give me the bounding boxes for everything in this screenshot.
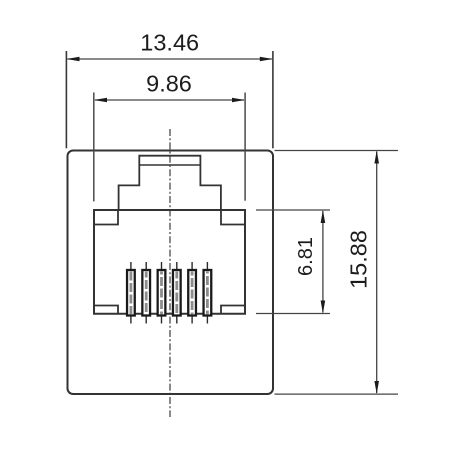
svg-text:9.86: 9.86 xyxy=(146,71,192,97)
svg-text:13.46: 13.46 xyxy=(140,30,199,56)
svg-text:15.88: 15.88 xyxy=(346,230,372,289)
svg-text:6.81: 6.81 xyxy=(295,237,317,276)
